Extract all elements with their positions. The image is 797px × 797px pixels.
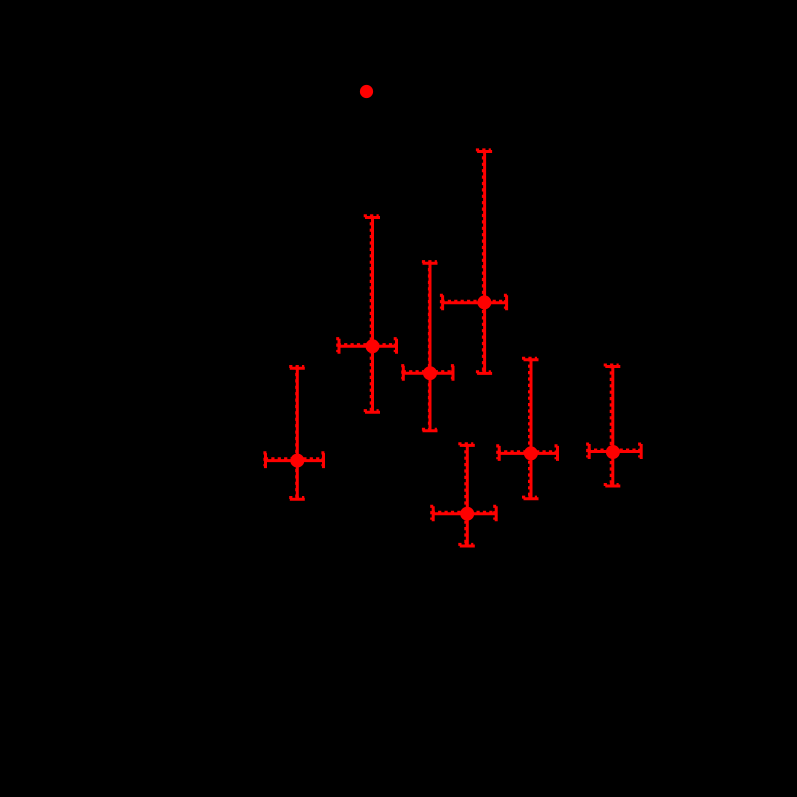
solid error bars (first series) [266, 152, 642, 547]
marker point 7 [606, 445, 620, 459]
marker lone dot [360, 85, 373, 98]
marker point 3 [423, 366, 437, 380]
dashed error bar point 5 [432, 444, 495, 545]
solid error bar point 6 [499, 360, 557, 499]
dashed error bar point 6 [498, 358, 556, 497]
solid error bar point 2 [339, 218, 397, 413]
marker point 4 [477, 295, 491, 309]
solid error bar point 3 [403, 263, 453, 431]
solid error bar point 1 [266, 368, 324, 499]
dashed error bar point 3 [403, 262, 453, 430]
marker point 2 [366, 339, 380, 353]
dashed error bar point 7 [588, 365, 640, 485]
solid error bar point 7 [589, 367, 641, 487]
dashed error bar point 2 [338, 216, 396, 411]
marker point 5 [460, 507, 474, 521]
solid error bar point 5 [433, 445, 496, 546]
dashed error bar point 4 [441, 150, 505, 372]
dashed error bar point 1 [265, 367, 323, 498]
dashed error bars (second series, offset up-left) [265, 150, 640, 545]
marker point 1 [290, 454, 304, 468]
data point markers [290, 85, 620, 521]
solid error bar point 4 [443, 152, 507, 374]
marker point 6 [524, 446, 538, 460]
